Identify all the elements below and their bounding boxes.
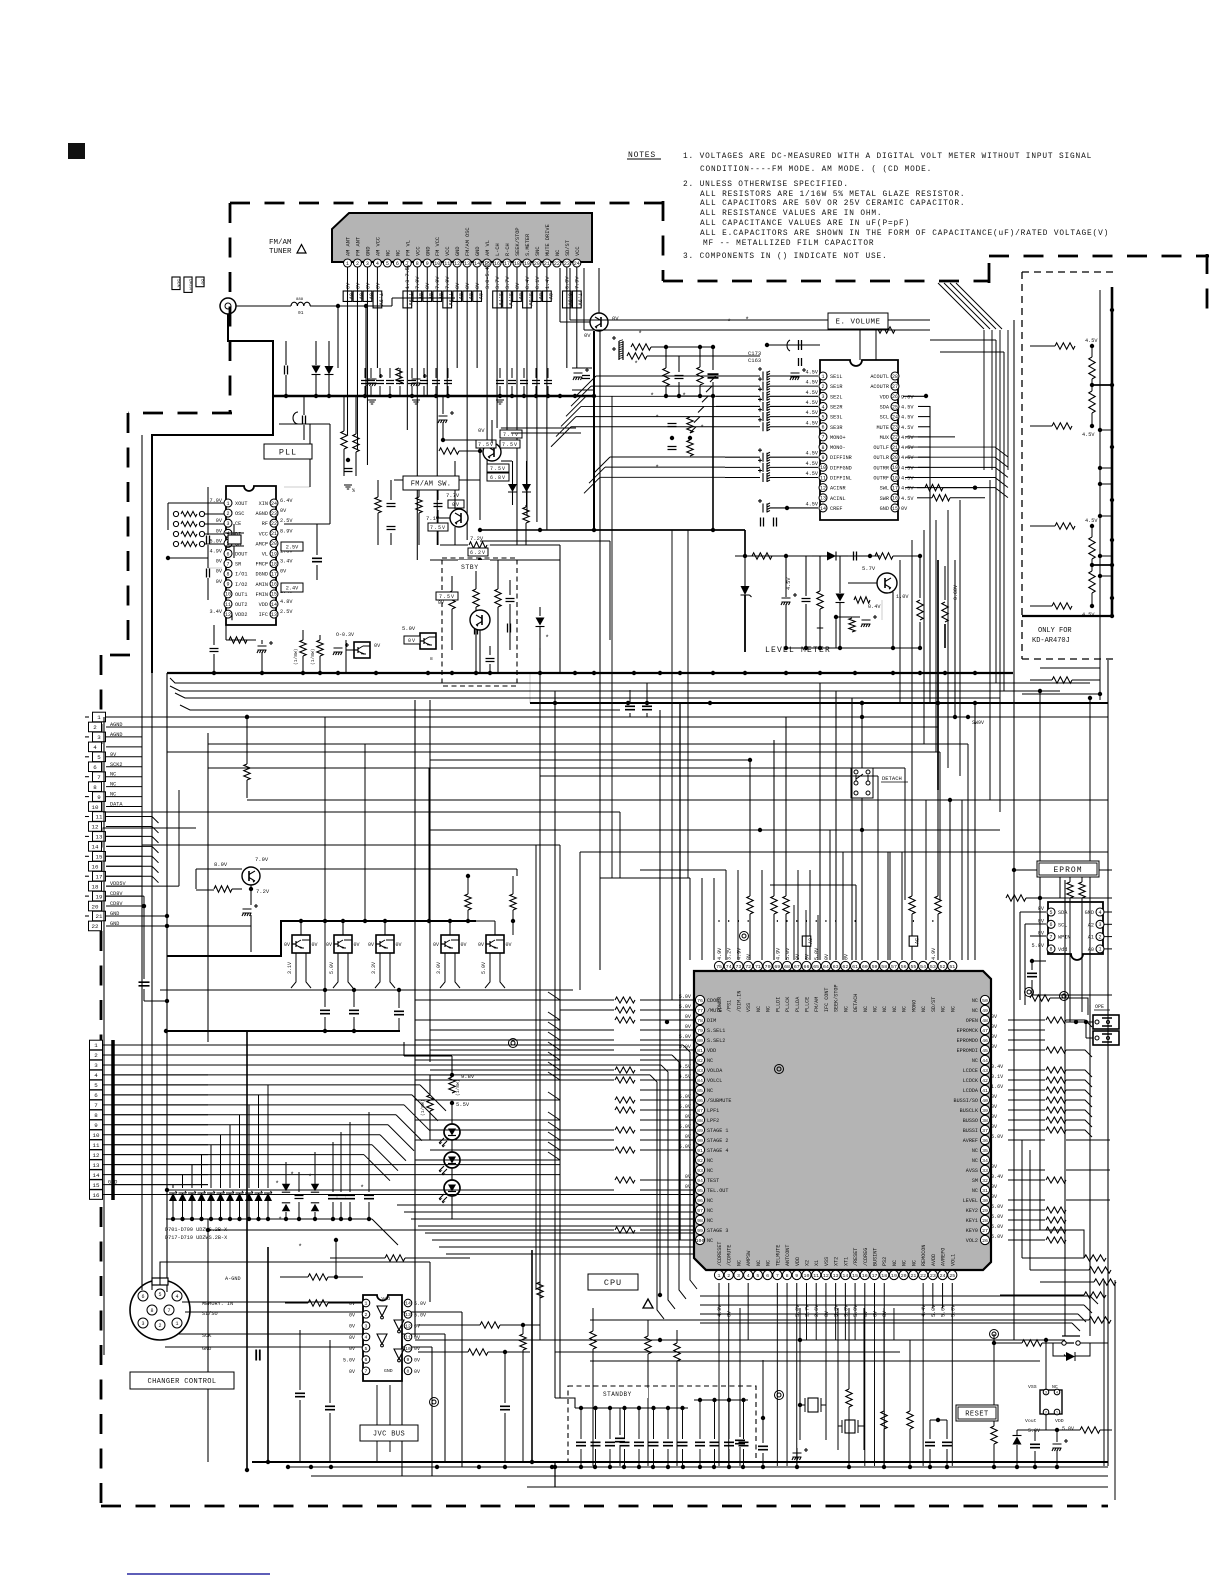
svg-text:NC: NC xyxy=(555,250,561,256)
cpu bottom drops2 xyxy=(748,1308,894,1340)
svg-text:7.5V: 7.5V xyxy=(502,442,518,448)
vert x560 drop xyxy=(559,560,561,673)
svg-text:11: 11 xyxy=(225,602,231,608)
boxed 0V top xyxy=(802,936,812,946)
wire x975 xyxy=(973,701,977,960)
svg-text:9: 9 xyxy=(97,794,101,801)
svg-text:SE3R: SE3R xyxy=(830,425,842,431)
svg-text:*: * xyxy=(360,1185,364,1193)
svg-text:5.0V: 5.0V xyxy=(814,947,820,960)
res cpu bottom2 xyxy=(645,1320,651,1466)
standby dashed box xyxy=(568,1386,756,1462)
svg-text:0V: 0V xyxy=(991,1034,998,1040)
svg-text:WPIN: WPIN xyxy=(1058,935,1070,941)
label LEVEL METER xyxy=(765,646,831,655)
svg-text:0V: 0V xyxy=(216,528,223,534)
svg-text:MONO: MONO xyxy=(911,1000,917,1012)
svg-text:22: 22 xyxy=(920,1273,926,1279)
svg-text:FM/AM: FM/AM xyxy=(269,239,292,247)
caps right bottom xyxy=(925,1418,952,1466)
svg-text:5.0V: 5.0V xyxy=(679,994,692,1000)
svg-text:0V: 0V xyxy=(685,1114,692,1120)
lm 4.5V xyxy=(786,577,792,590)
svg-text:6: 6 xyxy=(396,261,399,267)
svg-text:15: 15 xyxy=(96,854,103,861)
IC702 EPROM xyxy=(1032,902,1112,960)
svg-text:0V: 0V xyxy=(284,942,290,948)
svg-text:0V: 0V xyxy=(425,282,431,289)
jvc area thick verticals xyxy=(245,1031,270,1472)
svg-text:4.5V: 4.5V xyxy=(806,451,819,457)
svg-text:AVDD: AVDD xyxy=(931,1254,937,1266)
svg-text:X1: X1 xyxy=(814,1260,820,1266)
svg-text:0V: 0V xyxy=(727,1310,733,1317)
svg-text:18: 18 xyxy=(892,475,898,481)
q fmam wires xyxy=(436,420,492,545)
lm cap2 xyxy=(802,556,811,648)
svg-text:1: 1 xyxy=(1056,1411,1058,1415)
bus y830 ext xyxy=(430,829,760,831)
reset ecap xyxy=(1046,1428,1080,1466)
svg-text:6: 6 xyxy=(821,425,824,431)
stby cap2 xyxy=(475,626,478,635)
svg-text:5.0V: 5.0V xyxy=(679,1094,692,1100)
svg-text:L-CH: L-CH xyxy=(495,243,501,256)
double trunk x536 xyxy=(536,648,540,1340)
caps cpu bottom xyxy=(735,1308,768,1466)
svg-text:7.5V: 7.5V xyxy=(490,466,506,472)
svg-text:16: 16 xyxy=(494,261,500,267)
svg-text:18: 18 xyxy=(514,261,520,267)
svg-text:NC: NC xyxy=(707,1158,713,1164)
svg-text:9: 9 xyxy=(795,1273,798,1279)
svg-text:6.4V: 6.4V xyxy=(280,498,293,504)
LED D73 xyxy=(439,1180,460,1204)
svg-text:0V: 0V xyxy=(685,1024,692,1030)
dashed border notes bottom xyxy=(663,280,989,283)
jvcbus cap right xyxy=(500,1350,510,1462)
svg-text:41: 41 xyxy=(982,1088,988,1094)
stby res3 xyxy=(495,560,515,673)
svg-text:70: 70 xyxy=(765,964,771,970)
svg-text:Vdd: Vdd xyxy=(381,1296,390,1302)
svg-text:*: * xyxy=(745,317,749,325)
wire drop1 xyxy=(338,306,366,396)
svg-text:4.4V: 4.4V xyxy=(921,1304,927,1317)
svg-text:MONO-: MONO- xyxy=(830,445,846,451)
blue underline xyxy=(127,1573,270,1575)
svg-text:SDA: SDA xyxy=(880,404,890,410)
svg-text:16: 16 xyxy=(892,496,898,502)
evol input bundle xyxy=(551,376,716,447)
reset labels xyxy=(1028,1426,1074,1434)
svg-text:NC: NC xyxy=(892,1006,898,1012)
svg-text:VSS: VSS xyxy=(746,1003,752,1012)
resistor Rv1 xyxy=(663,368,669,386)
caps mid cluster xyxy=(375,480,396,545)
svg-text:29: 29 xyxy=(982,1208,988,1214)
res v pair mid xyxy=(341,396,359,476)
wire v1 xyxy=(666,347,713,372)
svg-text:20: 20 xyxy=(901,1273,907,1279)
svg-text:17: 17 xyxy=(504,261,510,267)
cpu left wires2 xyxy=(560,1000,669,1230)
svg-text:26: 26 xyxy=(892,394,898,400)
svg-text:4: 4 xyxy=(376,261,379,267)
cpu top feed3 xyxy=(851,698,853,960)
jvc drops xyxy=(377,1385,390,1462)
svg-text:STAGE 2: STAGE 2 xyxy=(707,1138,728,1144)
svg-text:VCC: VCC xyxy=(445,246,451,256)
svg-text:AVREF: AVREF xyxy=(963,1138,978,1144)
svg-text:CONDITION----FM MODE. AM: CONDITION----FM MODE. AM MODE. ( (CD MOD… xyxy=(700,166,932,174)
svg-text:98: 98 xyxy=(697,1218,703,1224)
svg-text:3: 3 xyxy=(1045,1391,1047,1395)
svg-text:5.0V: 5.0V xyxy=(343,1358,355,1364)
svg-text:7.5V: 7.5V xyxy=(439,594,455,600)
svg-text:0V: 0V xyxy=(1038,918,1045,924)
svg-text:*: * xyxy=(308,1174,312,1182)
svg-text:NC: NC xyxy=(902,1260,908,1266)
transistor Q901 xyxy=(590,313,608,331)
svg-text:5V: 5V xyxy=(913,938,919,944)
lm tr wires xyxy=(848,583,893,648)
ecap q vdd xyxy=(242,904,258,952)
label OPEN sw xyxy=(1094,1004,1110,1010)
led wires xyxy=(451,1104,453,1219)
svg-text:0.4V: 0.4V xyxy=(991,1174,1004,1180)
junction dots bus xyxy=(284,394,596,398)
pll gnd rail xyxy=(166,556,208,560)
svg-text:6: 6 xyxy=(94,1092,98,1099)
din wire ext xyxy=(262,1262,430,1302)
svg-text:0V: 0V xyxy=(216,559,223,565)
svg-text:ALL E.CAPACITORS ARE SHOWN IN: ALL E.CAPACITORS ARE SHOWN IN THE FORM O… xyxy=(700,230,1109,238)
svg-text:*: * xyxy=(275,1181,279,1189)
cpu right wires2 xyxy=(1066,1020,1092,1137)
label PLL box xyxy=(264,444,312,459)
svg-text:MUTE: MUTE xyxy=(877,425,889,431)
svg-text:0V: 0V xyxy=(843,953,849,960)
res above eprom xyxy=(1006,895,1112,901)
svg-text:43: 43 xyxy=(982,1068,988,1074)
gnd sym mid xyxy=(344,485,355,494)
resistor R171 xyxy=(631,344,651,350)
bottom bus 2 xyxy=(311,1475,1108,1477)
svg-text:97: 97 xyxy=(697,1208,703,1214)
svg-text:0V: 0V xyxy=(991,1114,998,1120)
svg-text:OUTRF: OUTRF xyxy=(873,476,889,482)
jvc top feed xyxy=(334,1238,338,1277)
svg-text:0V: 0V xyxy=(517,293,523,300)
boxed 5V top xyxy=(909,936,919,946)
svg-text:XOUT: XOUT xyxy=(235,501,247,507)
svg-text:75: 75 xyxy=(716,964,722,970)
svg-text:5: 5 xyxy=(386,261,389,267)
svg-text:NC: NC xyxy=(892,1260,898,1266)
tuner right drops xyxy=(570,268,930,330)
svg-text:74: 74 xyxy=(726,964,732,970)
svg-text:RESET: RESET xyxy=(965,1411,989,1419)
mid bus left tail xyxy=(430,558,560,562)
svg-text:40: 40 xyxy=(982,1098,988,1104)
tuner pin wires xyxy=(348,267,577,560)
digtr stby2 xyxy=(336,632,381,673)
svg-text:FM/AM: FM/AM xyxy=(814,997,820,1012)
svg-text:/CDREG: /CDREG xyxy=(863,1248,869,1266)
svg-text:SEEK/STOP: SEEK/STOP xyxy=(834,984,840,1012)
res cpu bottom1 xyxy=(590,1308,596,1466)
cap Cv2 xyxy=(708,374,719,378)
label RESET box xyxy=(956,1405,998,1421)
svg-text:30: 30 xyxy=(982,1198,988,1204)
svg-text:19: 19 xyxy=(524,261,530,267)
svg-text:1: 1 xyxy=(718,1273,721,1279)
svg-text:0V: 0V xyxy=(347,293,353,300)
pll left net xyxy=(168,503,222,530)
svg-text:3.4V: 3.4V xyxy=(280,559,293,565)
lr diag xyxy=(1072,1296,1098,1331)
svg-text:67: 67 xyxy=(794,964,800,970)
cpu res right1 xyxy=(909,717,915,960)
svg-text:17: 17 xyxy=(96,873,103,880)
svg-text:6: 6 xyxy=(766,1273,769,1279)
svg-text:19: 19 xyxy=(892,465,898,471)
trunk x208 low xyxy=(207,1219,209,1462)
eprom wires xyxy=(1014,868,1112,1005)
svg-text:7: 7 xyxy=(1049,934,1052,940)
svg-text:VDD: VDD xyxy=(880,394,889,400)
tact res xyxy=(992,1334,1053,1346)
dashed border tuner top xyxy=(230,202,663,205)
dt caps xyxy=(320,988,404,1031)
svg-text:ACINL: ACINL xyxy=(830,496,846,502)
svg-text:5.0V: 5.0V xyxy=(679,1044,692,1050)
svg-text:NC: NC xyxy=(941,1006,947,1012)
jvcbus caps xyxy=(295,1330,335,1462)
svg-text:11: 11 xyxy=(444,261,450,267)
svg-text:6: 6 xyxy=(1049,922,1052,928)
svg-text:23: 23 xyxy=(271,511,277,517)
svg-text:Vout: Vout xyxy=(1025,1418,1037,1424)
svg-text:44: 44 xyxy=(982,1058,988,1064)
svg-text:16: 16 xyxy=(271,582,277,588)
resistor Rv2 xyxy=(697,367,703,385)
svg-text:2: 2 xyxy=(94,1052,98,1059)
right col x1090 xyxy=(1089,1005,1091,1336)
svg-text:36: 36 xyxy=(982,1138,988,1144)
svg-text:61: 61 xyxy=(852,964,858,970)
right inner line xyxy=(1099,290,1101,700)
svg-text:888: 888 xyxy=(296,298,304,302)
svg-text:4.5V: 4.5V xyxy=(806,370,819,376)
svg-text:4.5V: 4.5V xyxy=(806,390,819,396)
svg-text:SE1L: SE1L xyxy=(830,374,842,380)
svg-text:CHANGER CONTROL: CHANGER CONTROL xyxy=(147,1378,216,1386)
cpu top feeds x xyxy=(726,800,962,960)
svg-text:VDD: VDD xyxy=(707,1048,716,1054)
svg-text:O-0.3V: O-0.3V xyxy=(336,632,354,638)
svg-text:ONLY FOR: ONLY FOR xyxy=(1038,627,1072,635)
svg-text:8: 8 xyxy=(93,784,97,791)
svg-text:*: * xyxy=(278,1217,282,1225)
svg-text:45: 45 xyxy=(982,1048,988,1054)
svg-text:4.5V: 4.5V xyxy=(1085,338,1098,344)
svg-text:0V: 0V xyxy=(991,1164,998,1170)
svg-text:51: 51 xyxy=(949,964,955,970)
svg-text:5.0V: 5.0V xyxy=(991,1224,1004,1230)
svg-text:19: 19 xyxy=(271,551,277,557)
svg-text:3.0V: 3.0V xyxy=(843,1304,849,1317)
svg-text:0V: 0V xyxy=(547,293,553,300)
svg-text:7: 7 xyxy=(365,1369,368,1375)
svg-text:0V: 0V xyxy=(475,282,481,289)
wire x950 xyxy=(949,800,951,960)
svg-text:86: 86 xyxy=(697,1098,703,1104)
svg-text:0.1V: 0.1V xyxy=(535,276,541,289)
svg-text:26: 26 xyxy=(982,1238,988,1244)
svg-text:16: 16 xyxy=(862,1273,868,1279)
svg-text:2: 2 xyxy=(226,511,229,517)
svg-text:FM ANT: FM ANT xyxy=(355,237,361,256)
svg-text:46: 46 xyxy=(982,1038,988,1044)
detach drop xyxy=(758,828,1000,960)
svg-text:/CDRESET: /CDRESET xyxy=(717,1242,723,1266)
svg-text:3.1V: 3.1V xyxy=(287,962,293,974)
wire 1090 up xyxy=(1088,696,1092,1005)
svg-text:15: 15 xyxy=(892,506,898,512)
svg-text:*: * xyxy=(638,331,642,339)
svg-text:24: 24 xyxy=(271,501,277,507)
svg-text:72: 72 xyxy=(745,964,751,970)
svg-text:/DIM.IN: /DIM.IN xyxy=(736,991,742,1012)
led feed xyxy=(404,1042,452,1075)
res v avdd xyxy=(881,1308,887,1466)
svg-text:NC: NC xyxy=(707,1208,713,1214)
key res4 xyxy=(1000,1292,1106,1298)
svg-text:LEVEL: LEVEL xyxy=(963,1198,978,1204)
svg-text:4.5V: 4.5V xyxy=(806,400,819,406)
standby caps xyxy=(575,1398,749,1467)
ref point 2 xyxy=(775,1065,784,1074)
lr bundle xyxy=(700,1296,1090,1323)
svg-text:6.8V: 6.8V xyxy=(490,475,506,481)
cref ecap xyxy=(758,499,818,513)
svg-text:0V: 0V xyxy=(461,942,467,948)
Q FM/AM top xyxy=(476,427,522,461)
bus y845 xyxy=(142,845,560,1000)
svg-text:STAGE 3: STAGE 3 xyxy=(707,1228,728,1234)
svg-text:5.0V: 5.0V xyxy=(679,1034,692,1040)
svg-text:10: 10 xyxy=(93,1132,100,1139)
ref point 4 xyxy=(990,1330,999,1339)
svg-text:32: 32 xyxy=(982,1178,988,1184)
page index mark xyxy=(68,143,85,159)
svg-text:SCK: SCK xyxy=(176,279,182,288)
right verticals x996 xyxy=(930,340,996,683)
svg-text:PS2: PS2 xyxy=(882,1257,888,1266)
svg-text:ACINR: ACINR xyxy=(830,486,846,492)
svg-text:0V: 0V xyxy=(478,942,484,948)
svg-text:FM/AM OSC: FM/AM OSC xyxy=(465,227,471,256)
dt bus y990 xyxy=(160,989,573,991)
diode row D701-D709 D717-D719 xyxy=(169,1191,272,1201)
svg-text:0V: 0V xyxy=(685,1134,692,1140)
svg-text:3. COMPONENTS IN () INDICATE: 3. COMPONENTS IN () INDICATE NOT USE. xyxy=(683,253,888,261)
cap C ant xyxy=(285,341,288,396)
evol top feeds xyxy=(820,322,876,360)
svg-text:21: 21 xyxy=(96,913,103,920)
svg-text:7: 7 xyxy=(821,435,824,441)
svg-text:KD-AR470J: KD-AR470J xyxy=(1032,637,1070,645)
svg-text:0V: 0V xyxy=(216,518,223,524)
wires into evol left xyxy=(716,376,760,478)
staircase cn101 xyxy=(106,817,159,883)
IC PLL xyxy=(210,486,294,625)
dashed border jog1 xyxy=(128,412,232,415)
res mid3 xyxy=(439,448,482,454)
svg-text:10: 10 xyxy=(434,261,440,267)
LED D71 xyxy=(439,1124,460,1148)
jvcbus res top xyxy=(330,1255,470,1261)
reset IC xyxy=(1025,1384,1064,1424)
svg-text:52: 52 xyxy=(940,964,946,970)
dashed border left upper xyxy=(229,203,232,413)
label E.VOLUME box xyxy=(828,313,888,329)
svg-text:1: 1 xyxy=(1098,947,1101,953)
svg-text:0.4V: 0.4V xyxy=(868,604,881,610)
wire evol vdd xyxy=(903,394,928,398)
reset res v xyxy=(991,1340,997,1466)
svg-text:0V: 0V xyxy=(467,293,473,300)
svg-text:0V: 0V xyxy=(991,1024,998,1030)
label C173 C163 xyxy=(748,350,761,364)
svg-text:0V: 0V xyxy=(746,953,752,960)
cpu warning xyxy=(643,1299,653,1308)
svg-text:TEST: TEST xyxy=(707,1178,719,1184)
svg-text:9.0V: 9.0V xyxy=(901,394,914,400)
svg-text:5.7V: 5.7V xyxy=(862,565,876,572)
svg-text:CPU: CPU xyxy=(604,1278,622,1288)
wire antenna xyxy=(236,305,291,307)
evol input bundle2 xyxy=(584,457,725,493)
tr diagonals xyxy=(938,283,1002,329)
svg-text:ACOUTL: ACOUTL xyxy=(870,374,889,380)
svg-text:1: 1 xyxy=(97,714,101,721)
label MEMORY.IN xyxy=(202,1301,233,1307)
svg-text:5.0V: 5.0V xyxy=(679,1124,692,1130)
svg-text:A2: A2 xyxy=(1088,922,1094,928)
svg-text:FM/AM SW.: FM/AM SW. xyxy=(411,481,452,489)
lm res6 xyxy=(942,566,948,648)
svg-text:18: 18 xyxy=(271,561,277,567)
stby res2 xyxy=(473,570,479,673)
svg-text:SW9V: SW9V xyxy=(972,720,984,726)
svg-text:OUTLF: OUTLF xyxy=(873,445,889,451)
svg-text:83: 83 xyxy=(697,1068,703,1074)
key res5 xyxy=(590,1317,1111,1323)
pll amin vbox xyxy=(281,583,303,592)
svg-text:0V: 0V xyxy=(437,293,443,300)
svg-text:2.4V: 2.4V xyxy=(286,585,299,591)
svg-text:2: 2 xyxy=(365,1312,368,1318)
cpu left wires xyxy=(615,997,696,1233)
wire evol to cpu1 xyxy=(819,683,821,960)
svg-text:SR: SR xyxy=(235,562,241,568)
svg-text:5.0V: 5.0V xyxy=(950,1304,956,1317)
svg-text:4.5V: 4.5V xyxy=(901,465,914,471)
boxed labels left of IC xyxy=(172,277,206,292)
